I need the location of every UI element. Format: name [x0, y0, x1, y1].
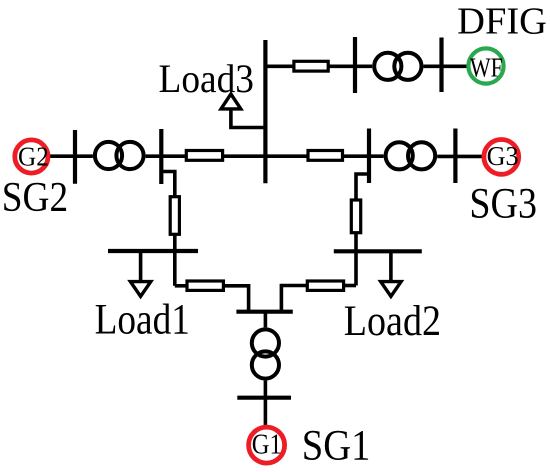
- bus B5 (right of T3): [453, 129, 457, 184]
- transformer T2 circles: [95, 142, 122, 169]
- bus G1-low: [237, 396, 291, 400]
- svg-text:SG2: SG2: [2, 175, 68, 221]
- wire: rect down through Load2 bus: [354, 233, 358, 286]
- wire: Load2 arrow stem: [389, 251, 393, 282]
- wire: left branch bus B3 down to line rect: [161, 172, 175, 197]
- svg-text:Load3: Load3: [159, 56, 255, 101]
- line L-top rect: [294, 61, 328, 71]
- wire: T1 to WF: [424, 65, 468, 69]
- svg-text:Load2: Load2: [344, 298, 441, 345]
- bus G1-high: [236, 310, 292, 314]
- svg-text:G1: G1: [252, 430, 282, 461]
- load arrow Load2 (down): [381, 282, 401, 297]
- generator G2 circle: [15, 140, 48, 173]
- bus Load1: [108, 249, 198, 253]
- wire: top row center bus to T1: [265, 65, 372, 69]
- wire: main row rect2 to transformer T3: [343, 154, 384, 158]
- wire: Load1 arrow stem: [139, 251, 143, 282]
- svg-text:SG1: SG1: [302, 422, 371, 469]
- wire: right branch bus B4 down to line rect: [356, 174, 369, 200]
- svg-text:SG3: SG3: [469, 181, 537, 228]
- wire: main row G2 to line L23 rect: [50, 154, 93, 158]
- bus B4 (left of T3): [367, 129, 371, 184]
- line L23b rect: [308, 151, 343, 161]
- bus B6 (left of T1): [353, 37, 357, 93]
- load arrow Load3 (up): [221, 94, 241, 109]
- generator G1 circle: [249, 427, 285, 463]
- load arrow Load1 (down): [130, 282, 150, 297]
- line L1-G1 rect: [187, 281, 223, 290]
- bus Load2: [334, 249, 422, 253]
- bus center (vertical): [263, 40, 267, 183]
- wire: bus down to transformer T4: [264, 312, 268, 328]
- wire: rect to bottom bus: [281, 286, 307, 312]
- line L23a rect: [186, 151, 222, 161]
- wire: rect down through Load1 bus: [173, 234, 177, 285]
- wire: main row between rects across center bus: [223, 154, 308, 158]
- transformer T1 circles: [374, 53, 401, 80]
- wire: main row T3 to G3: [437, 155, 482, 159]
- wire: T2 right to rect L23a: [146, 154, 187, 158]
- wire: T4 down to G1: [264, 381, 268, 425]
- line L-left vertical rect: [170, 197, 179, 235]
- wire: Load1 bus corner to line rect: [175, 284, 187, 288]
- transformer T3 circles: [386, 142, 413, 169]
- bus B7 (right of T1): [439, 38, 443, 93]
- wind farm WF circle: [468, 48, 503, 83]
- svg-text:G3: G3: [487, 141, 519, 171]
- svg-text:DFIG: DFIG: [457, 0, 547, 42]
- wire: rect to bottom bus: [223, 286, 248, 312]
- svg-text:G2: G2: [18, 141, 49, 172]
- line L-right vertical rect: [351, 200, 360, 233]
- line L2-G1 rect: [307, 281, 343, 290]
- wire: Load3 tap (bus to arrow): [231, 107, 266, 128]
- svg-text:WF: WF: [470, 53, 503, 83]
- transformer T4 circles (vertical): [252, 329, 279, 356]
- svg-text:Load1: Load1: [95, 297, 190, 344]
- bus B3 (right of T2): [159, 129, 163, 184]
- generator G3 circle: [484, 140, 519, 175]
- wire: Load2 corner to line rect: [344, 284, 356, 288]
- bus B2 (left of T2): [73, 130, 77, 184]
